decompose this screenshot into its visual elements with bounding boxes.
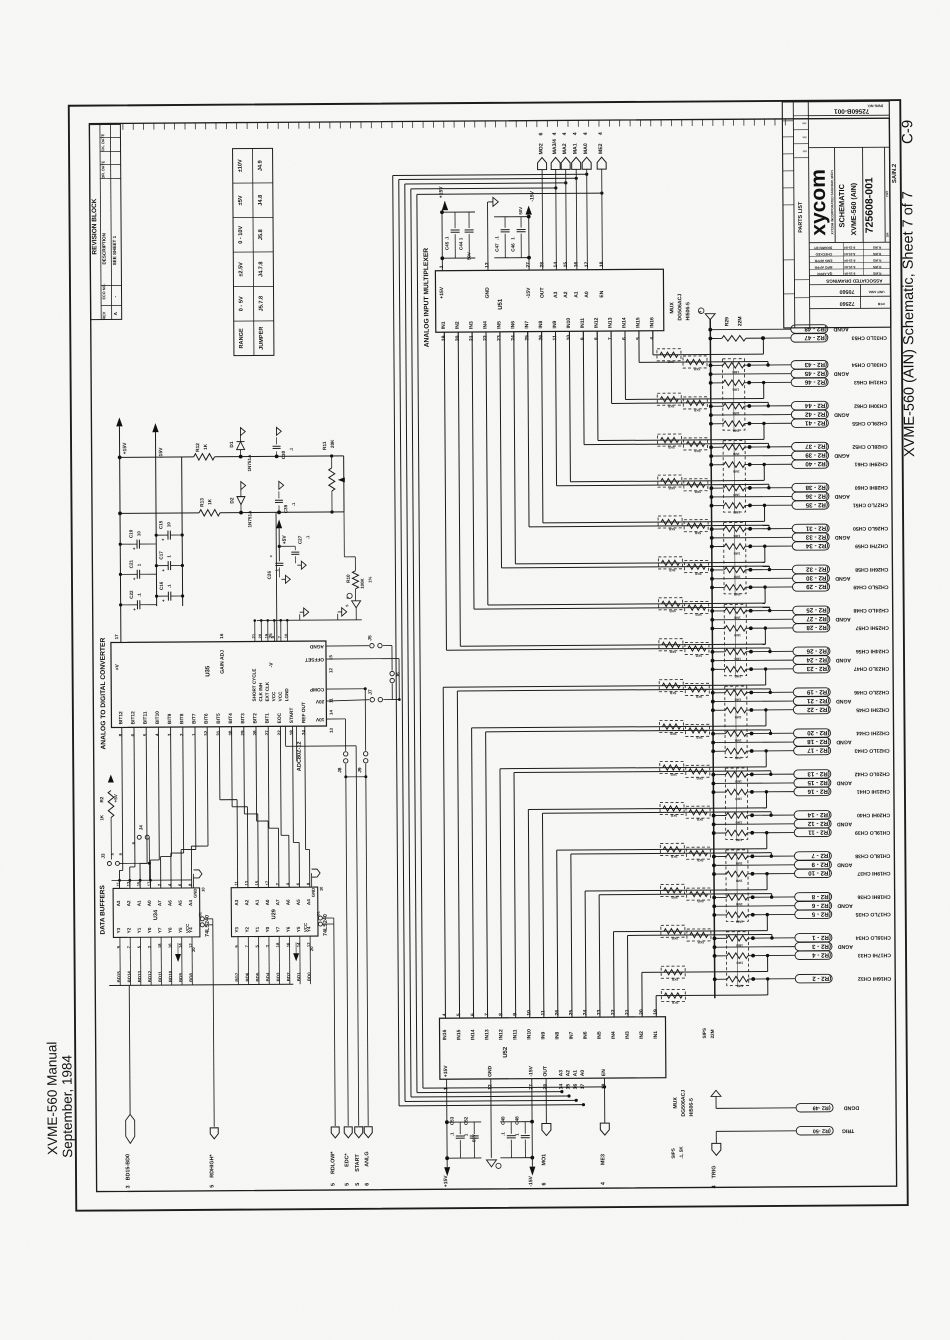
svg-text:Y7: Y7	[157, 927, 162, 933]
svg-text:1MB: 1MB	[733, 616, 740, 620]
svg-text:AGND: AGND	[835, 575, 851, 581]
svg-text:IN15: IN15	[456, 1029, 462, 1040]
svg-text:CH27HI CH59: CH27HI CH59	[855, 542, 888, 548]
svg-text:A7: A7	[157, 900, 162, 906]
svg-text:U34: U34	[153, 909, 159, 920]
svg-text:CH16LO CH34: CH16LO CH34	[856, 934, 891, 940]
svg-text:DR. DATE: DR. DATE	[101, 160, 105, 178]
svg-text:72560: 72560	[840, 300, 855, 306]
svg-text:4: 4	[552, 132, 558, 135]
svg-text:CH24LO CH48: CH24LO CH48	[853, 607, 888, 613]
svg-text:IN11: IN11	[512, 1029, 518, 1040]
svg-text:6: 6	[364, 1183, 370, 1186]
svg-text:R.WS: R.WS	[873, 245, 881, 249]
svg-text:IN7: IN7	[524, 321, 530, 329]
svg-text:1MB: 1MB	[732, 452, 739, 456]
svg-text:50V: 50V	[466, 252, 471, 260]
svg-text:17: 17	[114, 634, 119, 640]
svg-text:SHORT CYCLE: SHORT CYCLE	[252, 669, 257, 702]
svg-text:5KB: 5KB	[670, 773, 677, 777]
svg-text:74LS240: 74LS240	[323, 914, 329, 936]
svg-text:BIT9: BIT9	[167, 713, 173, 724]
svg-text:22: 22	[277, 730, 282, 736]
svg-text:SCHEMATIC: SCHEMATIC	[837, 183, 846, 227]
svg-text:UNIT ASM.: UNIT ASM.	[868, 290, 884, 294]
svg-text:IN2: IN2	[455, 321, 461, 329]
svg-text:5KB: 5KB	[667, 404, 674, 408]
svg-text:(R2 - 9: (R2 - 9	[811, 861, 831, 868]
svg-text:BD10: BD10	[168, 970, 173, 982]
svg-text:BD15-BD0: BD15-BD0	[125, 1154, 131, 1180]
svg-text:8-15-84: 8-15-84	[844, 252, 855, 256]
svg-text:+5V: +5V	[113, 793, 118, 802]
svg-text:CH25HI CH57: CH25HI CH57	[856, 624, 889, 630]
svg-text:Y7: Y7	[275, 926, 280, 932]
svg-text:CH17HI CH33: CH17HI CH33	[858, 952, 891, 958]
svg-text:5KB: 5KB	[696, 776, 703, 780]
svg-text:27: 27	[265, 730, 270, 736]
svg-text:C16: C16	[159, 581, 164, 590]
svg-text:30: 30	[228, 730, 233, 736]
svg-text:5KB: 5KB	[670, 855, 677, 859]
svg-text:CH29HI CH61: CH29HI CH61	[854, 461, 887, 467]
svg-text:Y0: Y0	[265, 926, 270, 932]
svg-text:+15V: +15V	[443, 1175, 449, 1188]
svg-text:5KB: 5KB	[696, 858, 703, 862]
svg-text:+: +	[269, 554, 274, 557]
svg-text:CH31LO CH53: CH31LO CH53	[852, 334, 887, 340]
svg-text:+5V: +5V	[282, 535, 288, 545]
svg-text:R13: R13	[199, 498, 205, 507]
svg-text:IN13: IN13	[484, 1029, 490, 1040]
svg-text:5KB: 5KB	[669, 691, 676, 695]
svg-text:24: 24	[301, 730, 306, 736]
svg-text:XVME-560 (AIN) Schematic, Shee: XVME-560 (AIN) Schematic, Sheet 7 of 7	[900, 191, 918, 457]
svg-text:4: 4	[583, 132, 589, 135]
svg-text:CH20LO CH42: CH20LO CH42	[855, 770, 890, 776]
svg-text:10: 10	[284, 633, 289, 638]
svg-text:U35: U35	[205, 665, 211, 677]
svg-text:(R2 - 17: (R2 - 17	[807, 746, 830, 753]
svg-text:4: 4	[712, 1185, 718, 1188]
svg-text:C52: C52	[463, 1116, 468, 1125]
svg-text:C22: C22	[129, 590, 134, 599]
svg-text:JUMPER: JUMPER	[259, 327, 265, 350]
svg-text:(R2 - 46: (R2 - 46	[804, 378, 827, 385]
svg-text:CH16HI CH32: CH16HI CH32	[858, 975, 891, 981]
svg-text:VCC: VCC	[185, 923, 190, 933]
svg-text:R.WS: R.WS	[873, 252, 881, 256]
svg-text:(R2 - 34: (R2 - 34	[805, 542, 828, 549]
svg-text:AGND: AGND	[836, 780, 852, 786]
svg-text:AGND: AGND	[309, 643, 324, 649]
svg-text:5KB: 5KB	[694, 490, 701, 494]
svg-text:(R2 - 19: (R2 - 19	[806, 688, 829, 695]
svg-text:5KB: 5KB	[668, 527, 675, 531]
svg-text:EDC*: EDC*	[344, 1152, 350, 1166]
svg-text:(R2 - 12: (R2 - 12	[807, 820, 830, 827]
svg-text:5KB: 5KB	[695, 695, 702, 699]
svg-text:DATA BUFFERS: DATA BUFFERS	[99, 885, 106, 935]
svg-text:14: 14	[329, 710, 334, 715]
svg-text:BIT8: BIT8	[179, 713, 185, 724]
svg-text:IN1: IN1	[653, 1031, 659, 1039]
svg-text:A4: A4	[188, 900, 193, 906]
svg-text:4: 4	[600, 1182, 606, 1185]
svg-text:A1: A1	[574, 291, 580, 298]
svg-text:RANGE: RANGE	[239, 328, 245, 349]
svg-text:R2: R2	[99, 796, 104, 802]
svg-text:5KB: 5KB	[694, 572, 701, 576]
svg-text:(R2 - 15: (R2 - 15	[807, 779, 830, 786]
svg-text:A2: A2	[565, 1070, 571, 1077]
svg-text:IN6: IN6	[583, 1031, 589, 1039]
svg-text:5: 5	[210, 1185, 216, 1188]
svg-text:J6: J6	[396, 672, 402, 678]
svg-text:Y3: Y3	[234, 927, 239, 933]
svg-text:C44: C44	[458, 241, 463, 250]
svg-text:ASSOCIATED DRAWINGS: ASSOCIATED DRAWINGS	[826, 278, 882, 283]
svg-text:BD5: BD5	[255, 972, 260, 981]
svg-text:D1: D1	[229, 441, 235, 448]
svg-text:IN14: IN14	[470, 1029, 476, 1040]
svg-text:1%: 1%	[367, 576, 372, 582]
svg-text:1MB: 1MB	[735, 861, 742, 865]
svg-text:(R2 - 14: (R2 - 14	[807, 811, 830, 818]
svg-text:1MB: 1MB	[732, 370, 739, 374]
svg-text:(R2 - 2: (R2 - 2	[812, 975, 832, 982]
svg-text:22M: 22M	[737, 316, 743, 326]
svg-text:R12: R12	[195, 443, 201, 452]
svg-text:0 - 5V: 0 - 5V	[239, 296, 245, 311]
svg-text:EXT CLK: EXT CLK	[265, 681, 270, 701]
svg-text:R.WS: R.WS	[873, 258, 881, 262]
svg-text:IN3: IN3	[469, 321, 475, 329]
svg-text:18: 18	[289, 730, 294, 736]
svg-text:Y2: Y2	[245, 926, 250, 932]
svg-text:6: 6	[541, 1183, 547, 1186]
svg-text:.1: .1	[494, 236, 499, 240]
svg-text:J4.8: J4.8	[258, 195, 264, 206]
svg-text:+: +	[132, 608, 137, 611]
svg-text:IN5: IN5	[496, 321, 502, 329]
svg-text:BD1: BD1	[296, 972, 301, 981]
svg-text:±2.5V: ±2.5V	[238, 262, 244, 277]
svg-text:CH26HI CH58: CH26HI CH58	[855, 566, 888, 572]
svg-text:A6: A6	[286, 899, 291, 905]
svg-text:50V: 50V	[518, 207, 523, 215]
svg-text:CH24HI CH56: CH24HI CH56	[856, 648, 889, 654]
svg-text:IN4: IN4	[483, 321, 489, 329]
svg-text:31: 31	[216, 730, 221, 736]
svg-text:A6: A6	[167, 900, 172, 906]
svg-text:BIT12: BIT12	[118, 711, 124, 724]
svg-text:+15V: +15V	[443, 1065, 449, 1078]
svg-text:±5V: ±5V	[238, 195, 244, 205]
svg-text:J7: J7	[368, 689, 374, 695]
svg-text:1: 1	[191, 733, 196, 736]
svg-text:BIT2: BIT2	[252, 713, 258, 724]
svg-text:A3: A3	[553, 291, 559, 298]
svg-text:(R2 - 21: (R2 - 21	[806, 697, 829, 704]
svg-text:U51: U51	[498, 298, 504, 310]
svg-text:(R2 - 47: (R2 - 47	[804, 334, 827, 341]
svg-text:20: 20	[191, 947, 196, 952]
svg-text:START: START	[289, 708, 295, 724]
svg-text:BD12: BD12	[147, 970, 152, 982]
svg-text:74LS240: 74LS240	[205, 915, 211, 937]
svg-text:32: 32	[204, 730, 209, 736]
svg-text:nn: nn	[803, 135, 807, 139]
svg-text:(R2 - 32: (R2 - 32	[805, 565, 828, 572]
svg-text:VCC: VCC	[278, 691, 283, 701]
svg-text:+15V: +15V	[122, 442, 128, 455]
svg-text:1MB: 1MB	[733, 551, 740, 555]
svg-text:BD3: BD3	[276, 972, 281, 981]
svg-text:A5: A5	[178, 900, 183, 906]
svg-text:10: 10	[166, 522, 171, 527]
svg-text:(R2 - 41: (R2 - 41	[804, 419, 827, 426]
svg-text:22M: 22M	[710, 1029, 715, 1038]
svg-text:C45: C45	[444, 241, 449, 250]
svg-text:(R2 -50: (R2 -50	[813, 1127, 831, 1133]
svg-text:AGND: AGND	[836, 698, 852, 704]
svg-text:5KB: 5KB	[671, 1001, 678, 1005]
svg-text:ANLG: ANLG	[364, 1151, 370, 1166]
svg-text:3: 3	[126, 1185, 132, 1188]
svg-text:IN1: IN1	[441, 321, 447, 329]
svg-text:C47: C47	[494, 243, 499, 252]
svg-text:16: 16	[219, 633, 224, 639]
svg-text:CH25LO CH49: CH25LO CH49	[853, 583, 888, 589]
svg-text:+: +	[132, 547, 137, 550]
svg-text:AGND: AGND	[837, 943, 853, 949]
svg-text:CH20HI CH40: CH20HI CH40	[857, 812, 890, 818]
svg-text:(R2 - 20: (R2 - 20	[807, 729, 830, 736]
svg-text:4: 4	[562, 132, 568, 135]
svg-text:EOC: EOC	[277, 712, 283, 723]
svg-text:SIPS: SIPS	[702, 1028, 707, 1039]
svg-text:BIT3: BIT3	[240, 713, 246, 724]
svg-text:REF OUT: REF OUT	[301, 702, 307, 723]
svg-text:IN8: IN8	[538, 321, 544, 329]
svg-text:(R2 - 39: (R2 - 39	[805, 451, 828, 458]
svg-text:IN16: IN16	[442, 1029, 448, 1040]
svg-text:GND: GND	[311, 888, 316, 897]
svg-text:.1: .1	[449, 1132, 454, 1136]
svg-text:GND: GND	[487, 1065, 493, 1077]
svg-text:U52: U52	[503, 1046, 509, 1058]
svg-text:+: +	[132, 577, 137, 580]
svg-text:J5: J5	[367, 635, 373, 641]
svg-text:IN3: IN3	[625, 1031, 631, 1039]
svg-text:5KB: 5KB	[670, 813, 677, 817]
svg-text:IN10: IN10	[526, 1029, 532, 1040]
svg-text:A0: A0	[147, 900, 152, 906]
svg-text:SH: SH	[885, 232, 889, 237]
svg-text:BD9: BD9	[178, 973, 183, 982]
svg-text:TRIG: TRIG	[842, 1127, 854, 1133]
svg-text:HI506-5: HI506-5	[685, 302, 691, 321]
svg-text:IN6: IN6	[510, 321, 516, 329]
svg-text:+: +	[160, 538, 165, 541]
svg-text:.1: .1	[137, 593, 142, 597]
svg-text:BIT5: BIT5	[216, 713, 222, 724]
svg-text:MA3/4: MA3/4	[552, 139, 558, 154]
svg-text:-15V: -15V	[526, 287, 532, 298]
svg-text:725608-001: 725608-001	[863, 177, 875, 233]
svg-text:C48: C48	[514, 1116, 519, 1125]
svg-text:AGND: AGND	[837, 861, 853, 867]
svg-text:C49: C49	[500, 1116, 505, 1125]
svg-text:DG506ACJ: DG506ACJ	[681, 1090, 687, 1117]
svg-text:5KB: 5KB	[668, 486, 675, 490]
svg-text:CH19HI CH37: CH19HI CH37	[857, 870, 890, 876]
svg-text:(R2 - 45: (R2 - 45	[804, 370, 827, 377]
svg-text:A1: A1	[573, 1070, 579, 1077]
svg-text:12: 12	[328, 668, 333, 673]
svg-text:IN13: IN13	[608, 317, 614, 328]
svg-text:(R2 - 7: (R2 - 7	[811, 852, 831, 859]
svg-text:5KB: 5KB	[694, 531, 701, 535]
svg-text:(R2 - 13: (R2 - 13	[807, 770, 830, 777]
svg-text:4: 4	[598, 132, 604, 135]
svg-text:REV: REV	[102, 311, 106, 319]
svg-text:(R2 - 4: (R2 - 4	[812, 951, 832, 958]
svg-text:29: 29	[240, 730, 245, 736]
svg-text:CH22LO CH46: CH22LO CH46	[854, 689, 889, 695]
svg-text:U29: U29	[271, 909, 277, 919]
svg-text:CH30HI CH62: CH30HI CH62	[854, 402, 887, 408]
svg-text:Y5: Y5	[178, 927, 183, 933]
svg-text:5KB: 5KB	[695, 654, 702, 658]
svg-text:(R2 - 8: (R2 - 8	[811, 893, 831, 900]
svg-text:5KB: 5KB	[697, 899, 704, 903]
svg-text:17: 17	[580, 1083, 586, 1089]
svg-text:Y1: Y1	[137, 927, 142, 933]
svg-text:5KB: 5KB	[668, 568, 675, 572]
svg-text:J8: J8	[337, 767, 343, 773]
svg-text:±10V: ±10V	[238, 159, 244, 172]
svg-text:5KB: 5KB	[693, 367, 700, 371]
svg-text:(R2 - 25: (R2 - 25	[806, 606, 829, 613]
svg-text:72560B-001: 72560B-001	[834, 107, 870, 114]
svg-text:1MB: 1MB	[732, 493, 739, 497]
svg-text:SEE SHEET 1: SEE SHEET 1	[112, 235, 117, 265]
svg-text:OFFSET: OFFSET	[305, 656, 324, 662]
svg-text:C21: C21	[129, 559, 134, 568]
svg-text:(R2 - 43: (R2 - 43	[804, 361, 827, 368]
svg-text:1MB: 1MB	[734, 738, 741, 742]
svg-text:9: 9	[698, 311, 702, 313]
svg-text:10: 10	[136, 531, 141, 536]
svg-text:BIT11: BIT11	[143, 711, 149, 724]
svg-text:100K: 100K	[360, 577, 365, 588]
svg-text:1MB: 1MB	[735, 838, 742, 842]
svg-text:A4: A4	[306, 899, 311, 905]
svg-text:(R2 - 37: (R2 - 37	[805, 442, 828, 449]
svg-text:BD6: BD6	[245, 972, 250, 981]
svg-text:MUX: MUX	[669, 302, 675, 314]
svg-text:AGND: AGND	[835, 616, 851, 622]
svg-text:(R2 - 3: (R2 - 3	[811, 943, 831, 950]
svg-text:11: 11	[328, 698, 333, 703]
svg-text:IN7: IN7	[569, 1031, 575, 1039]
svg-text:.1: .1	[444, 236, 449, 240]
svg-text:PARTS LIST: PARTS LIST	[798, 201, 804, 233]
svg-text:4: 4	[572, 132, 578, 135]
svg-text:7of7: 7of7	[885, 190, 889, 197]
svg-text:(R2 - 18: (R2 - 18	[807, 738, 830, 745]
svg-text:C46: C46	[510, 243, 515, 252]
svg-text:BD4: BD4	[265, 972, 270, 981]
svg-text:A2: A2	[126, 900, 131, 906]
svg-text:(R2 - 36: (R2 - 36	[805, 492, 828, 499]
svg-text:A3: A3	[558, 1070, 564, 1077]
svg-text:GAIN ADJ: GAIN ADJ	[220, 650, 226, 674]
svg-text:-V: -V	[269, 662, 275, 668]
svg-text:CH21LO CH43: CH21LO CH43	[854, 747, 889, 753]
svg-text:MO1: MO1	[541, 1154, 547, 1166]
svg-text:A1: A1	[255, 899, 260, 905]
svg-text:J3: J3	[101, 853, 106, 859]
svg-text:XVME-560 Manual: XVME-560 Manual	[44, 1042, 60, 1155]
svg-text:EN: EN	[601, 1069, 607, 1076]
svg-text:AGND: AGND	[836, 739, 852, 745]
svg-text:CK. DATE: CK. DATE	[101, 133, 105, 151]
svg-text:J4: J4	[138, 825, 143, 831]
svg-text:A2: A2	[563, 291, 569, 298]
svg-text:CH27LO CH51: CH27LO CH51	[853, 501, 888, 507]
svg-text:CH28LO CH52: CH28LO CH52	[852, 443, 887, 449]
svg-text:BD11: BD11	[158, 971, 163, 983]
svg-text:20K: 20K	[330, 439, 335, 448]
svg-text:J9: J9	[357, 767, 363, 773]
svg-text:DGND: DGND	[844, 1104, 860, 1110]
svg-text:CH23LO CH47: CH23LO CH47	[854, 665, 889, 671]
svg-text:A0: A0	[584, 291, 590, 298]
svg-text:1MB: 1MB	[734, 715, 741, 719]
svg-text:-15V: -15V	[528, 1065, 534, 1076]
svg-text:IN9: IN9	[552, 320, 558, 328]
svg-text:C39: C39	[283, 504, 288, 513]
svg-text:CH18HI CH36: CH18HI CH36	[857, 893, 890, 899]
svg-text:1MB: 1MB	[732, 387, 739, 391]
svg-text:14: 14	[558, 1084, 564, 1090]
svg-text:(R2 - 42: (R2 - 42	[804, 410, 827, 417]
svg-text:(R2 - 48: (R2 - 48	[804, 325, 827, 332]
svg-text:20: 20	[258, 633, 263, 638]
svg-text:Y5: Y5	[296, 926, 301, 932]
svg-text:ANALOG INPUT MULTIPLEXER: ANALOG INPUT MULTIPLEXER	[423, 248, 431, 348]
svg-text:20V: 20V	[315, 698, 324, 704]
svg-text:MA1: MA1	[573, 143, 579, 154]
svg-text:R29: R29	[724, 317, 730, 326]
svg-text:nn: nn	[802, 121, 806, 125]
svg-text:LGND: LGND	[284, 688, 289, 702]
svg-text:1MB: 1MB	[732, 429, 739, 433]
svg-text:(R2 - 6: (R2 - 6	[811, 902, 831, 909]
svg-text:Y6: Y6	[286, 926, 291, 932]
svg-text:CH21HI CH41: CH21HI CH41	[857, 788, 890, 794]
svg-text:CH31HI CH63: CH31HI CH63	[854, 379, 887, 385]
svg-text:5KB: 5KB	[671, 977, 678, 981]
svg-text:BD0: BD0	[307, 972, 312, 981]
svg-text:19: 19	[264, 633, 269, 638]
svg-text:START: START	[355, 1154, 361, 1172]
svg-text:AGND: AGND	[833, 326, 849, 332]
svg-text:BD13: BD13	[137, 970, 142, 982]
